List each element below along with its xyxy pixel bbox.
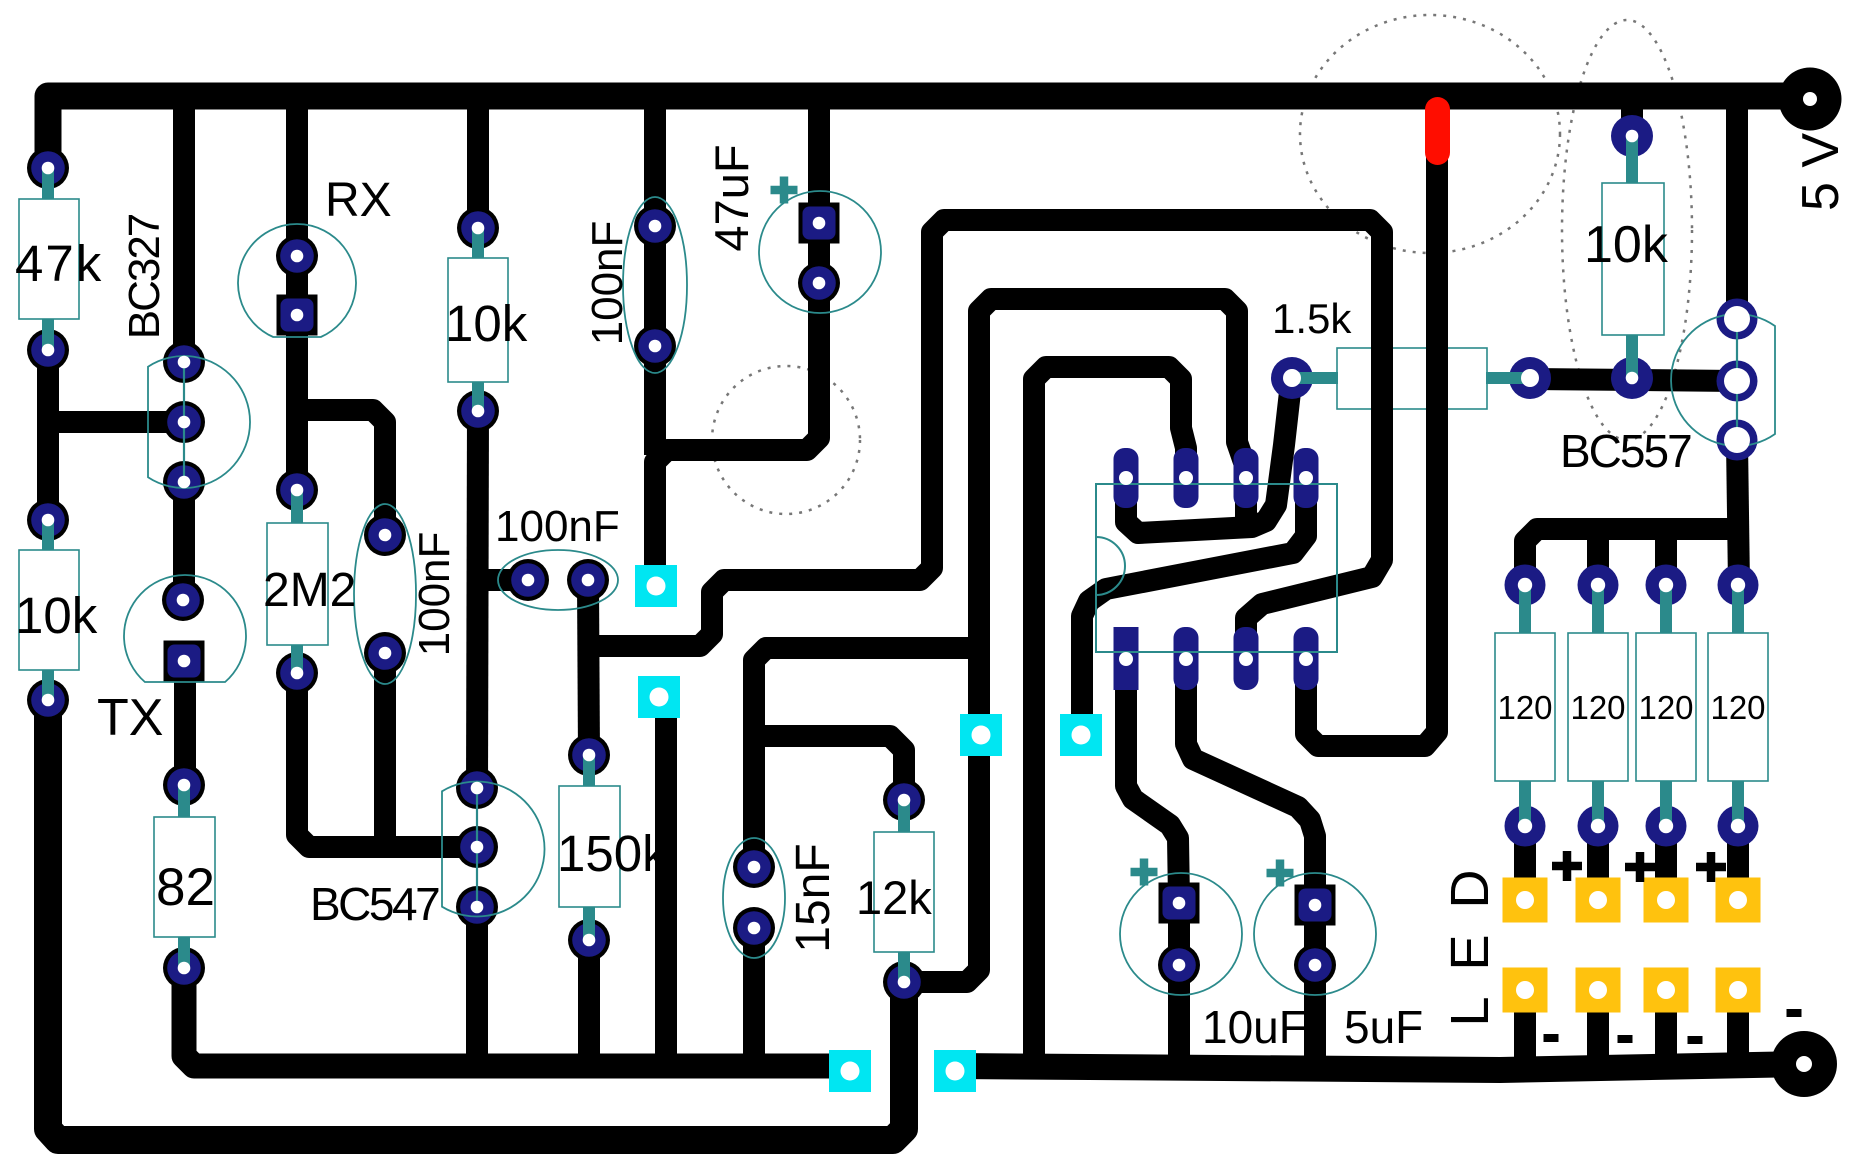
svg-text:100nF: 100nF	[410, 532, 459, 657]
svg-text:1.5k: 1.5k	[1272, 295, 1352, 342]
svg-text:BC547: BC547	[310, 878, 439, 930]
svg-text:100nF: 100nF	[583, 221, 632, 346]
svg-text:120: 120	[1638, 689, 1693, 726]
svg-text:47k: 47k	[15, 235, 103, 292]
svg-text:150k: 150k	[557, 825, 668, 882]
svg-text:120: 120	[1570, 689, 1625, 726]
svg-text:LED: LED	[1440, 843, 1500, 1026]
svg-text:100nF: 100nF	[495, 502, 620, 551]
svg-text:5uF: 5uF	[1344, 1001, 1423, 1053]
svg-text:BC557: BC557	[1560, 425, 1691, 477]
svg-text:10uF: 10uF	[1202, 1001, 1307, 1053]
svg-text:12k: 12k	[856, 871, 932, 924]
svg-text:TX: TX	[97, 689, 163, 747]
svg-text:5 V: 5 V	[1792, 133, 1850, 211]
svg-text:120: 120	[1710, 689, 1765, 726]
svg-text:10k: 10k	[15, 587, 98, 644]
svg-text:10k: 10k	[445, 295, 528, 352]
svg-text:82: 82	[156, 858, 215, 917]
svg-text:10k: 10k	[1584, 216, 1669, 274]
svg-text:RX: RX	[325, 174, 392, 227]
svg-text:2M2: 2M2	[263, 564, 356, 617]
svg-text:15nF: 15nF	[787, 843, 840, 952]
svg-text:47uF: 47uF	[705, 144, 758, 251]
svg-text:BC327: BC327	[120, 214, 169, 339]
svg-text:120: 120	[1497, 689, 1552, 726]
